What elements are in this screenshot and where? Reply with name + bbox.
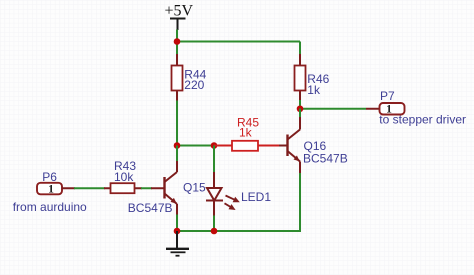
LED1 cathode bar xyxy=(206,200,223,202)
+5V supply symbol xyxy=(170,19,186,31)
node mid right xyxy=(211,142,218,149)
svg-text:P6: P6 xyxy=(42,170,57,184)
resistor R44 pins xyxy=(176,54,178,102)
svg-text:1k: 1k xyxy=(239,126,253,140)
svg-text:220: 220 xyxy=(184,78,204,92)
svg-text:LED1: LED1 xyxy=(241,190,271,204)
resistor R45 right wire xyxy=(258,145,279,147)
svg-text:+5V: +5V xyxy=(165,3,194,20)
transistor Q16 emitter arrow xyxy=(294,156,300,162)
node ground left xyxy=(174,228,181,235)
wire P6 to R43 xyxy=(74,187,105,189)
svg-text:to stepper driver: to stepper driver xyxy=(379,113,466,127)
connector P6 body xyxy=(37,183,62,195)
wire Q16 emitter down xyxy=(177,173,300,231)
node collector Q16 xyxy=(297,105,304,112)
transistor Q15 xyxy=(151,161,177,216)
ground symbol xyxy=(166,231,189,256)
LED1 pins xyxy=(213,172,215,217)
wire top horizontal xyxy=(177,41,300,43)
wire node to R44 xyxy=(176,42,178,56)
svg-text:1: 1 xyxy=(48,184,54,196)
node junction +5V xyxy=(174,38,181,45)
wire mid horizontal xyxy=(177,145,214,147)
LED1 triangle xyxy=(207,188,222,201)
transistor Q16 xyxy=(279,117,300,174)
resistor R44 body xyxy=(172,66,183,91)
wire R43 to Q15 base xyxy=(141,187,152,189)
svg-text:from aurduino: from aurduino xyxy=(13,200,87,214)
wire LED cathode down xyxy=(213,216,215,232)
svg-text:1k: 1k xyxy=(307,83,321,97)
resistor R45 body xyxy=(232,141,258,151)
node mid left xyxy=(174,142,181,149)
wire down to R46 xyxy=(299,42,301,56)
svg-text:BC547B: BC547B xyxy=(303,152,348,166)
connector P7 pin wire xyxy=(366,108,380,110)
transistor Q15 emitter arrow xyxy=(171,198,177,204)
wire to P7 xyxy=(300,108,366,110)
wire Q16 collector xyxy=(299,109,301,118)
svg-text:P7: P7 xyxy=(380,89,395,103)
LED1 emission arrow 1 xyxy=(226,196,240,203)
resistor R43 body xyxy=(111,183,135,193)
node LED cathode xyxy=(211,228,218,235)
resistor R45 left wire (highlighted net) xyxy=(214,145,232,147)
wire Q15 emitter down xyxy=(176,215,178,232)
wire R46 to collector node xyxy=(299,100,301,109)
LED1 anode wire xyxy=(213,146,215,174)
connector P7 body xyxy=(380,103,405,115)
resistor R46 pins xyxy=(299,54,301,101)
LED1 emission arrow 2 xyxy=(225,203,236,210)
wire +5V vertical xyxy=(176,30,178,42)
svg-text:Q15: Q15 xyxy=(183,181,206,195)
svg-text:BC547B: BC547B xyxy=(128,201,173,215)
connector P6 pin wire xyxy=(62,187,76,189)
resistor R46 body xyxy=(295,66,306,91)
wire Q15 collector xyxy=(176,146,178,162)
svg-text:10k: 10k xyxy=(114,170,134,184)
resistor R43 pins xyxy=(104,187,142,189)
wire R44 to mid node xyxy=(176,101,178,146)
